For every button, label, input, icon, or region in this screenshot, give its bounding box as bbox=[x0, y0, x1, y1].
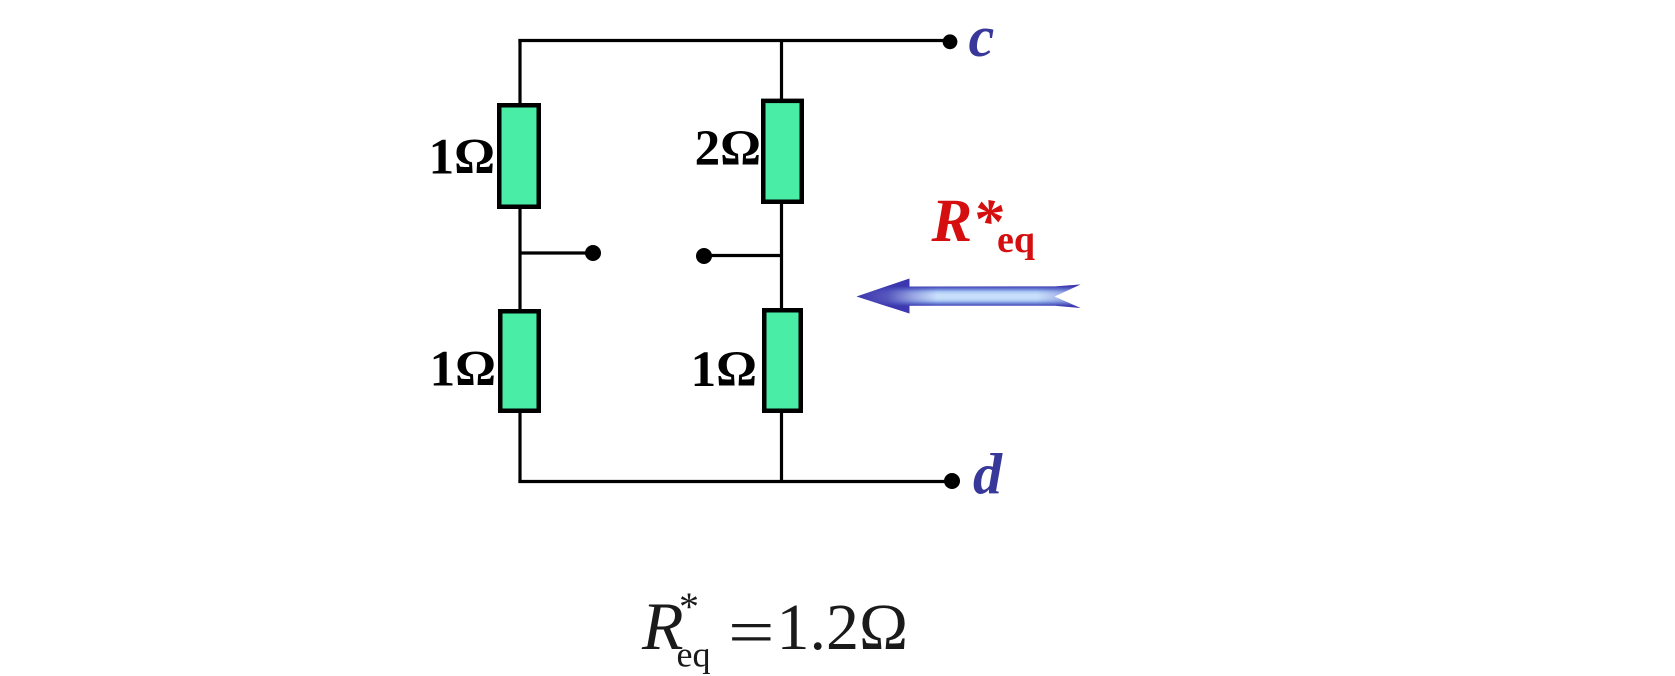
resistor 1ohm top-left bbox=[499, 105, 539, 207]
wire: top rail from branches to node c bbox=[518, 39, 950, 42]
svg-text:=: = bbox=[728, 596, 775, 669]
wire: left branch top segment bbox=[518, 39, 521, 104]
wire: right open stub bbox=[705, 254, 782, 257]
wire: right branch bottom segment bbox=[780, 410, 783, 483]
wire: left branch middle segment bbox=[518, 205, 521, 312]
svg-text:eq: eq bbox=[677, 635, 711, 675]
svg-text:1Ω: 1Ω bbox=[691, 342, 757, 398]
resistor 1ohm bottom-right bbox=[764, 310, 801, 411]
node c terminal dot bbox=[943, 34, 958, 49]
arrow: blue gradient arrow pointing left toward circuit bbox=[857, 279, 1081, 314]
svg-text:1Ω: 1Ω bbox=[430, 342, 496, 398]
resistor 2ohm top-right bbox=[763, 101, 802, 202]
wire: bottom rail from branches to node d bbox=[518, 480, 952, 483]
node: left stub terminal dot bbox=[585, 245, 601, 261]
node label c bbox=[969, 4, 995, 69]
label 1 ohm (top-left resistor) bbox=[429, 130, 495, 186]
node d terminal dot bbox=[944, 473, 960, 489]
wire: left open stub bbox=[520, 251, 592, 254]
svg-text:*: * bbox=[679, 584, 699, 629]
node label d bbox=[973, 442, 1003, 507]
formula: Req* = 1.2 ohm bbox=[641, 584, 908, 675]
svg-text:2Ω: 2Ω bbox=[695, 121, 761, 177]
label R*eq (red, equivalent resistance) bbox=[931, 188, 1036, 261]
svg-text:c: c bbox=[969, 4, 995, 69]
node: right stub terminal dot bbox=[696, 248, 712, 264]
wire: right branch middle segment bbox=[780, 200, 783, 311]
resistor 1ohm bottom-left bbox=[500, 311, 539, 411]
label 2 ohm (top-right resistor) bbox=[695, 121, 761, 177]
wire: left branch bottom segment bbox=[518, 410, 521, 483]
svg-text:1.2Ω: 1.2Ω bbox=[777, 591, 909, 664]
svg-text:R*: R* bbox=[931, 188, 1004, 255]
svg-text:d: d bbox=[973, 442, 1003, 507]
label 1 ohm (bottom-left resistor) bbox=[430, 342, 496, 398]
label 1 ohm (bottom-right resistor) bbox=[691, 342, 757, 398]
svg-text:1Ω: 1Ω bbox=[429, 130, 495, 186]
wire: right branch top segment bbox=[780, 39, 783, 100]
svg-text:eq: eq bbox=[997, 219, 1035, 261]
